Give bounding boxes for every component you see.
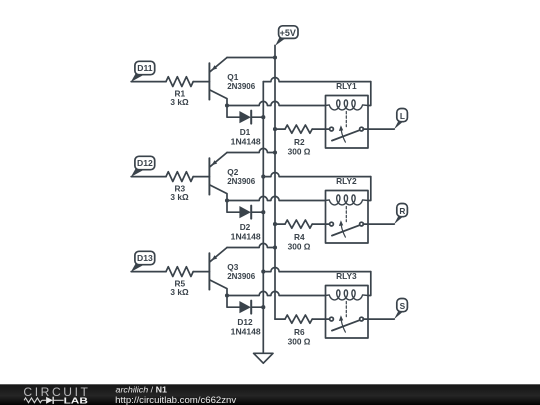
- svg-text:R6: R6: [294, 327, 305, 337]
- svg-text:3 kΩ: 3 kΩ: [170, 287, 189, 297]
- svg-text:3 kΩ: 3 kΩ: [170, 192, 189, 202]
- svg-text:D12: D12: [137, 158, 153, 168]
- svg-text:1N4148: 1N4148: [231, 327, 261, 337]
- svg-text:2N3906: 2N3906: [227, 271, 255, 281]
- svg-text:RLY1: RLY1: [336, 81, 357, 91]
- svg-text:LAB: LAB: [64, 395, 88, 405]
- svg-text:D2: D2: [240, 222, 251, 232]
- svg-text:RLY3: RLY3: [336, 271, 357, 281]
- svg-text:1N4148: 1N4148: [231, 232, 261, 242]
- svg-text:D11: D11: [137, 63, 153, 73]
- svg-text:S: S: [400, 301, 406, 311]
- svg-text:R2: R2: [294, 137, 305, 147]
- svg-text:2N3906: 2N3906: [227, 176, 255, 186]
- svg-text:1N4148: 1N4148: [231, 137, 261, 147]
- svg-text:+5V: +5V: [280, 28, 296, 38]
- svg-text:RLY2: RLY2: [336, 176, 357, 186]
- svg-text:R4: R4: [294, 232, 305, 242]
- svg-text:300 Ω: 300 Ω: [288, 337, 311, 347]
- svg-text:300 Ω: 300 Ω: [288, 242, 311, 252]
- svg-text:300 Ω: 300 Ω: [288, 147, 311, 157]
- svg-text:D13: D13: [137, 253, 153, 263]
- svg-text:L: L: [400, 111, 405, 121]
- svg-text:D1: D1: [240, 127, 251, 137]
- svg-text:D12: D12: [237, 317, 253, 327]
- svg-text:R: R: [399, 206, 405, 216]
- svg-text:2N3906: 2N3906: [227, 81, 255, 91]
- svg-text:archilich / N1: archilich / N1: [116, 385, 168, 395]
- svg-text:http://circuitlab.com/c662znv: http://circuitlab.com/c662znv: [115, 395, 237, 405]
- svg-text:3 kΩ: 3 kΩ: [170, 97, 189, 107]
